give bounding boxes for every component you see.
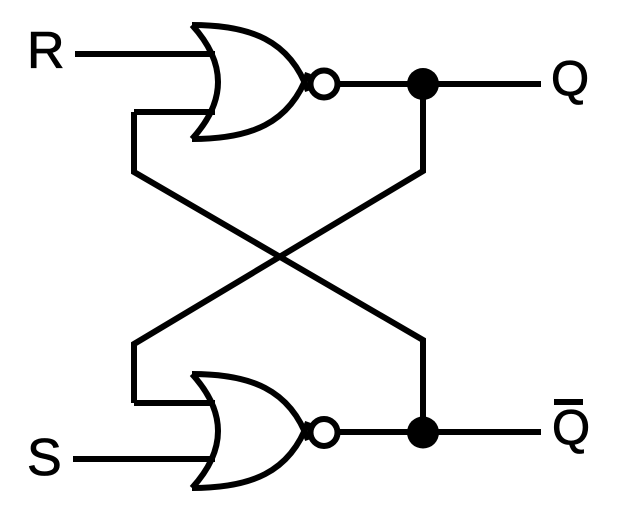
svg-text:S: S <box>27 429 62 487</box>
svg-text:Q: Q <box>552 401 590 455</box>
svg-text:Q: Q <box>551 52 589 106</box>
svg-text:R: R <box>27 22 65 80</box>
